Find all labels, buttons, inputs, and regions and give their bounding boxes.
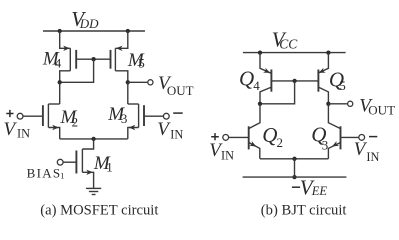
label Q2: [262, 123, 283, 150]
svg-text:DD: DD: [79, 16, 99, 31]
label M3: [107, 104, 127, 126]
junction tail node: [91, 137, 95, 141]
svg-text:1: 1: [106, 159, 113, 174]
wire emitter node to VEE rail: [294, 159, 296, 177]
svg-text:4: 4: [253, 78, 260, 93]
svg-text:4: 4: [55, 55, 62, 70]
svg-text:OUT: OUT: [167, 83, 194, 98]
wire common emitters of Q2,Q3: [260, 158, 328, 160]
input terminal − (b): [359, 135, 365, 141]
transistor M4 (PMOS): [60, 31, 76, 82]
svg-text:IN: IN: [170, 128, 183, 142]
svg-text:BIAS: BIAS: [27, 165, 62, 180]
wire common sources of M2,M3: [60, 138, 128, 140]
svg-text:(b) BJT circuit: (b) BJT circuit: [261, 203, 347, 219]
svg-text:EE: EE: [311, 184, 328, 198]
junction M5 drain / output node: [126, 80, 130, 84]
junction gate node: [91, 57, 95, 61]
label VDD: [71, 7, 99, 31]
label M2: [60, 107, 79, 129]
svg-text:CC: CC: [279, 37, 298, 52]
junction base node: [292, 79, 296, 83]
input terminal + (a): [17, 113, 23, 119]
transistor Q2 (NPN): [229, 104, 260, 159]
svg-text:(a) MOSFET circuit: (a) MOSFET circuit: [40, 203, 158, 219]
junction VDD / M4 source: [58, 29, 62, 33]
transistor M3 (NMOS, mirrored): [128, 104, 164, 139]
label Q3: [311, 123, 328, 153]
svg-text:5: 5: [339, 78, 346, 93]
wire output node to terminal: [328, 103, 347, 105]
wire base node to Q4 collector (mirror connection): [260, 81, 295, 104]
label − VIN (a): [157, 113, 183, 142]
junction M4 drain node: [58, 80, 62, 84]
wire output node to terminal: [128, 81, 148, 83]
label VOUT (b): [359, 95, 395, 117]
label + VIN (a): [4, 110, 31, 141]
svg-text:2: 2: [72, 114, 79, 129]
svg-text:OUT: OUT: [368, 103, 395, 118]
svg-text:5: 5: [138, 55, 145, 70]
svg-text:3: 3: [121, 111, 128, 126]
label M1: [93, 153, 113, 175]
transistor Q4 (PNP): [260, 53, 271, 104]
terminal VOUT (b): [348, 101, 353, 106]
junction emitter node: [292, 157, 296, 161]
label − VIN (b): [354, 137, 380, 164]
net VCC rail: [243, 52, 346, 54]
ground: [86, 188, 101, 194]
svg-text:IN: IN: [17, 127, 30, 141]
junction VEE rail: [292, 175, 296, 179]
label VOUT (a): [158, 73, 194, 98]
junction Q5 collector / output node: [326, 102, 330, 106]
junction Q4 collector node: [258, 102, 262, 106]
svg-text:Q: Q: [262, 123, 277, 147]
label -VEE: [292, 176, 328, 200]
wire output node to M3 drain: [127, 82, 129, 104]
terminal BIAS: [57, 159, 63, 165]
label M5: [127, 50, 145, 71]
net VDD rail: [43, 30, 145, 32]
transistor Q5 (PNP, mirrored): [318, 53, 329, 104]
junction VCC / Q5 emitter: [326, 50, 330, 54]
junction VCC / Q4 emitter: [258, 50, 262, 54]
svg-text:2: 2: [277, 135, 284, 150]
label M4: [42, 49, 62, 71]
label BIAS1: [27, 165, 65, 180]
svg-text:IN: IN: [221, 149, 234, 163]
junction VDD / M5 source: [126, 29, 130, 33]
label VCC: [272, 28, 298, 52]
wire M4 gate to M5 gate: [76, 58, 110, 60]
input terminal + (b): [223, 135, 229, 141]
input terminal − (a): [163, 113, 169, 119]
svg-text:3: 3: [322, 137, 329, 152]
transistor M5 (PMOS): [111, 31, 128, 82]
wire Q4 base to Q5 base: [271, 80, 318, 82]
label + VIN (b): [209, 133, 234, 163]
wire gate node to M4 drain (mirror connection): [60, 59, 94, 82]
wire M4 drain to M2 drain: [59, 82, 61, 104]
net -VEE rail: [243, 176, 347, 178]
label Q4: [239, 67, 260, 93]
transistor M2 (NMOS): [23, 104, 60, 139]
svg-text:IN: IN: [366, 150, 379, 164]
transistor Q3 (NPN, mirrored): [328, 104, 358, 159]
transistor M1 (NMOS): [63, 139, 94, 188]
label Q5: [329, 68, 346, 93]
svg-text:Q: Q: [239, 67, 254, 91]
terminal VOUT (a): [148, 80, 153, 85]
svg-text:1: 1: [60, 170, 64, 180]
